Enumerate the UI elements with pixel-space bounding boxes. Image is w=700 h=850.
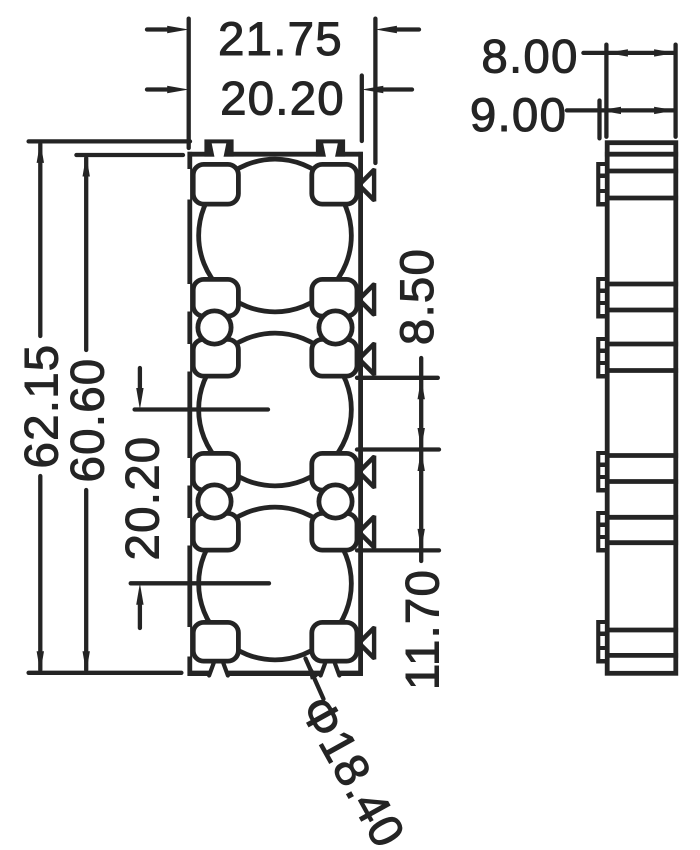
svg-text:11.70: 11.70 xyxy=(397,569,450,690)
svg-text:21.75: 21.75 xyxy=(218,13,343,66)
svg-text:8.50: 8.50 xyxy=(391,248,444,345)
svg-text:20.20: 20.20 xyxy=(220,73,345,126)
svg-text:60.60: 60.60 xyxy=(61,358,114,483)
svg-text:20.20: 20.20 xyxy=(116,436,169,561)
svg-text:9.00: 9.00 xyxy=(470,89,567,142)
svg-text:8.00: 8.00 xyxy=(481,31,578,84)
